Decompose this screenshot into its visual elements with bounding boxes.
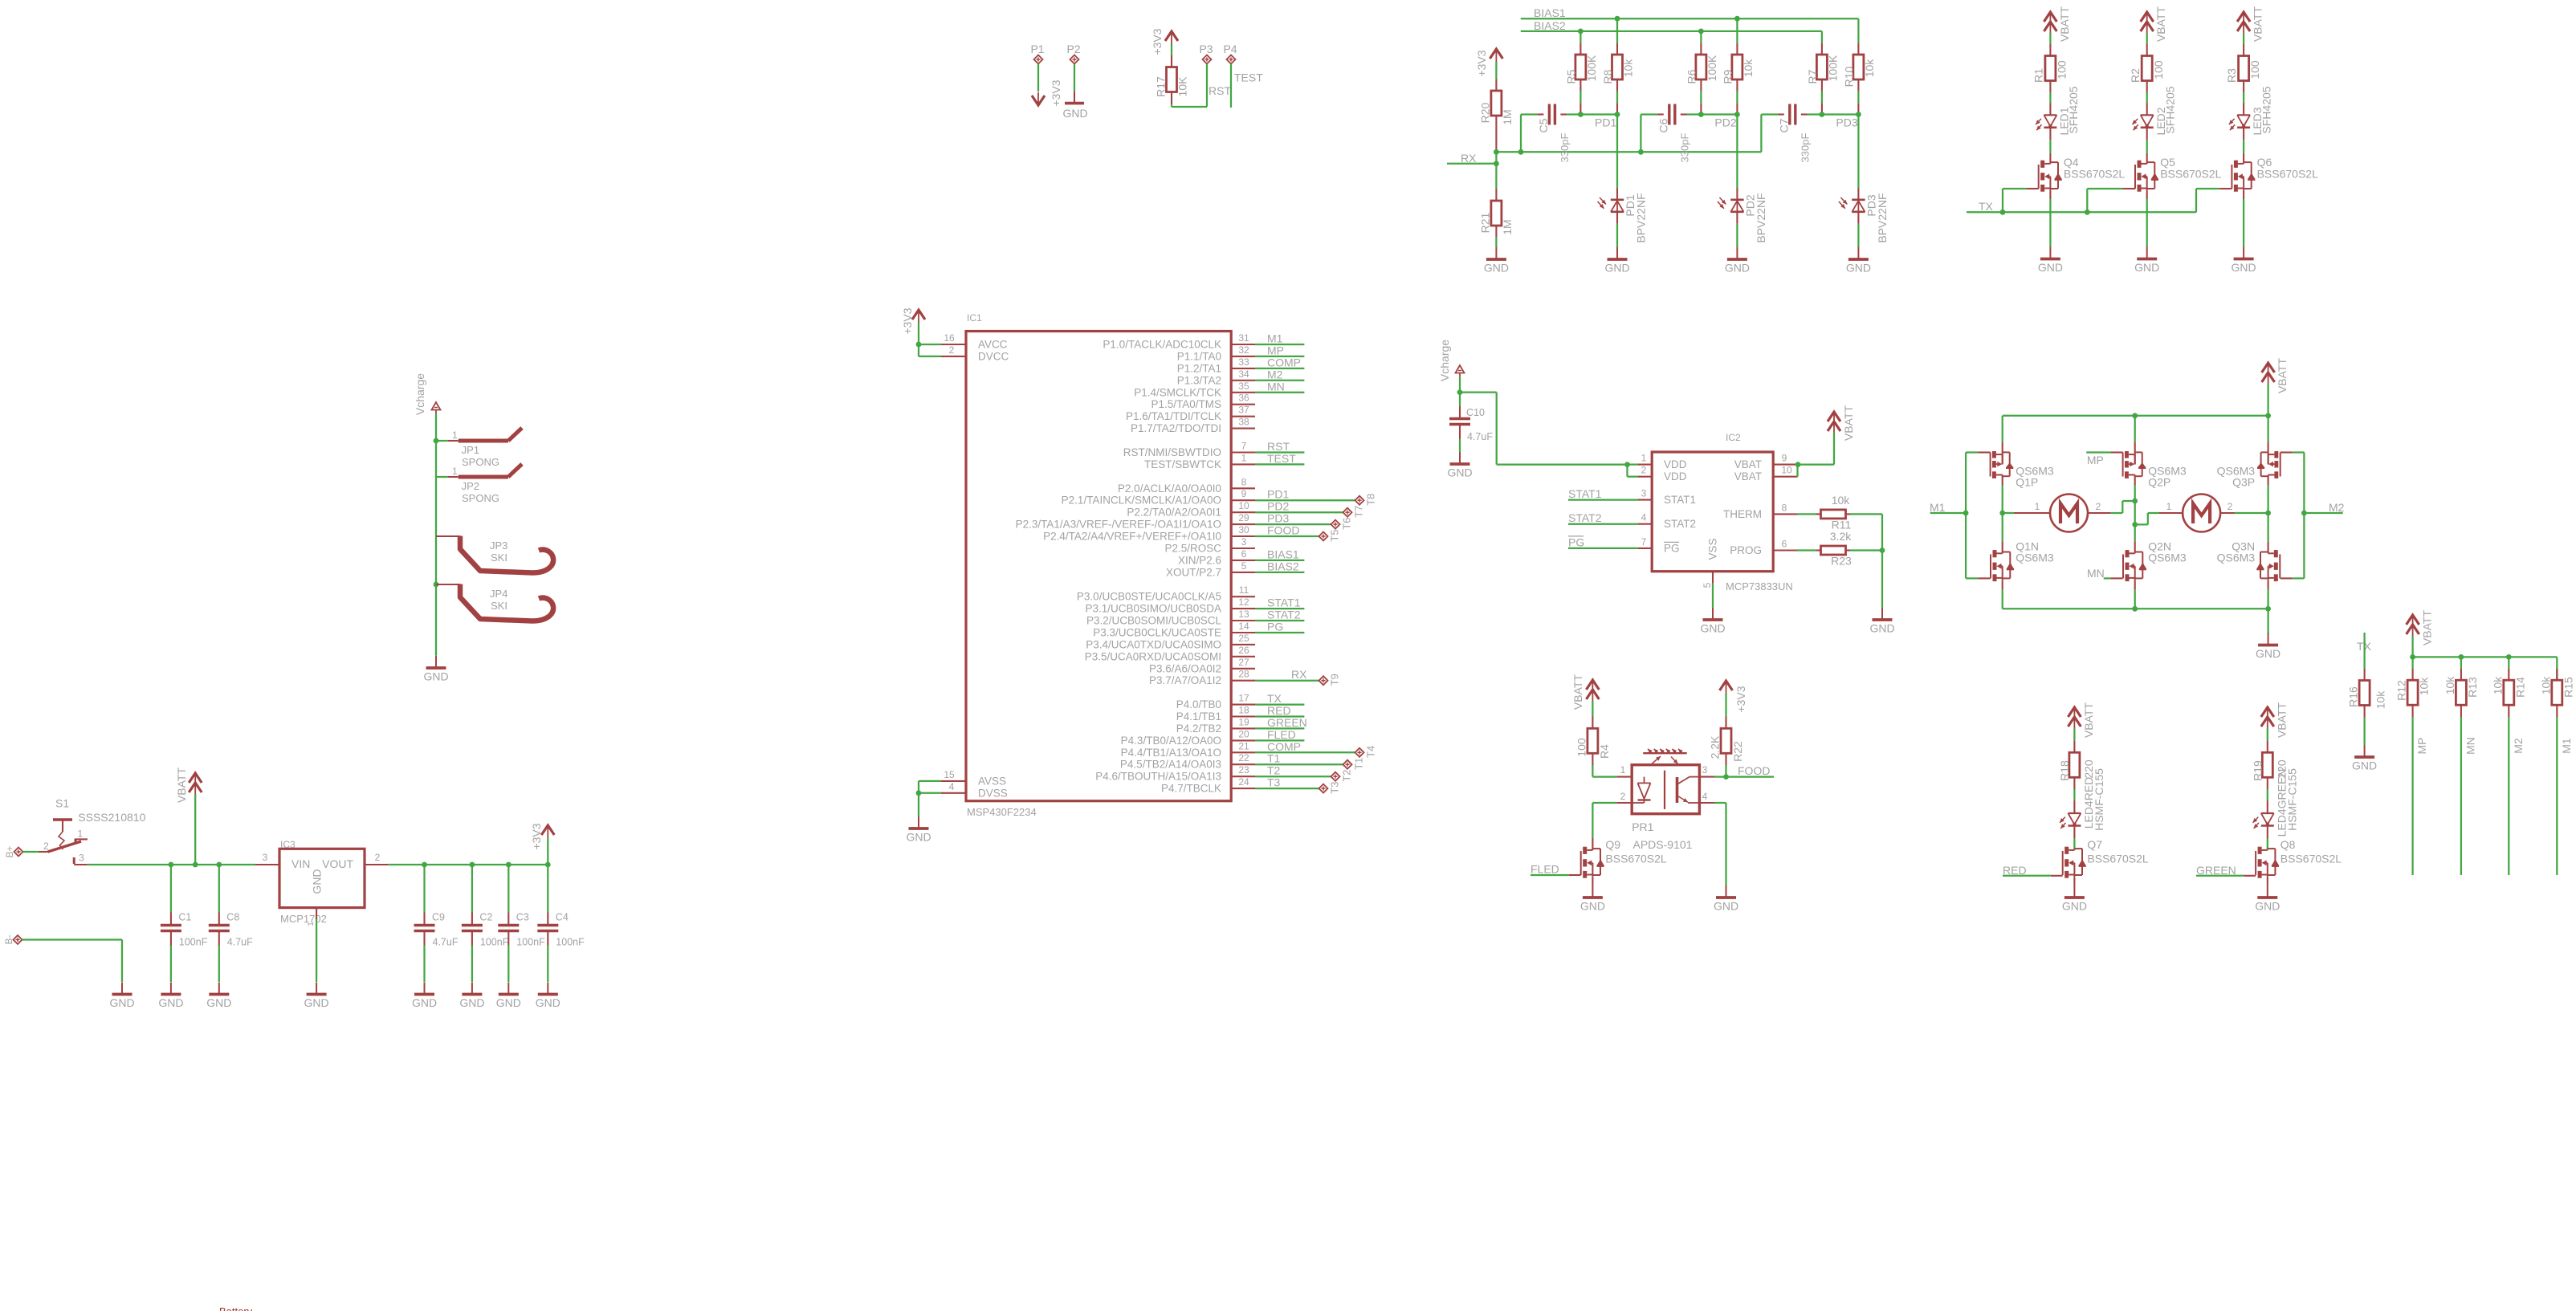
svg-text:1M: 1M	[1501, 109, 1514, 124]
svg-text:MP: MP	[2415, 738, 2428, 755]
svg-text:3: 3	[263, 852, 268, 863]
svg-text:DVSS: DVSS	[978, 787, 1008, 799]
svg-text:GND: GND	[2256, 647, 2280, 660]
svg-text:4.7uF: 4.7uF	[227, 937, 253, 948]
svg-text:22: 22	[1238, 752, 1249, 763]
svg-text:B-: B-	[3, 934, 14, 944]
svg-text:P1: P1	[1030, 43, 1044, 55]
svg-text:100nF: 100nF	[480, 937, 509, 948]
svg-text:PROG: PROG	[1730, 544, 1762, 556]
svg-text:M1: M1	[2560, 738, 2573, 754]
svg-text:1: 1	[452, 430, 458, 441]
svg-text:TEST: TEST	[1267, 452, 1296, 465]
svg-text:Battery: Battery	[219, 1305, 253, 1311]
svg-text:C4: C4	[556, 912, 569, 923]
svg-text:4.7uF: 4.7uF	[433, 937, 459, 948]
svg-text:3: 3	[1702, 764, 1708, 776]
svg-text:100: 100	[2056, 60, 2069, 79]
svg-text:VBAT: VBAT	[1734, 458, 1762, 470]
svg-text:PD3: PD3	[1836, 116, 1857, 129]
svg-text:TX: TX	[1979, 200, 1994, 213]
svg-text:GND: GND	[496, 996, 521, 1009]
svg-text:R13: R13	[2466, 677, 2479, 698]
svg-text:Vcharge: Vcharge	[414, 373, 426, 415]
svg-text:31: 31	[1238, 332, 1249, 344]
svg-text:STAT1: STAT1	[1568, 487, 1602, 500]
svg-text:P3: P3	[1199, 43, 1213, 55]
svg-text:APDS-9101: APDS-9101	[1633, 838, 1693, 851]
svg-text:27: 27	[1238, 657, 1249, 668]
svg-text:HSMF-C155: HSMF-C155	[2093, 768, 2105, 831]
svg-text:+3V3: +3V3	[1050, 79, 1062, 106]
svg-text:330pF: 330pF	[1678, 133, 1690, 163]
svg-text:GREEN: GREEN	[1267, 716, 1307, 729]
svg-text:9: 9	[1241, 488, 1247, 499]
svg-text:M2: M2	[2512, 738, 2525, 754]
svg-text:VOUT: VOUT	[322, 857, 353, 870]
svg-text:3: 3	[1241, 536, 1247, 548]
svg-text:R15: R15	[2562, 677, 2574, 698]
svg-text:P1.1/TA0: P1.1/TA0	[1177, 350, 1221, 362]
svg-text:32: 32	[1238, 344, 1249, 356]
svg-text:33: 33	[1238, 356, 1249, 368]
svg-text:MN: MN	[1267, 380, 1285, 393]
svg-text:SSSS210810: SSSS210810	[78, 811, 145, 824]
svg-text:T1: T1	[1267, 752, 1281, 765]
svg-text:PD1: PD1	[1595, 116, 1616, 129]
svg-text:B+: B+	[4, 845, 15, 857]
svg-text:P3.2/UCB0SOMI/UCB0SCL: P3.2/UCB0SOMI/UCB0SCL	[1086, 615, 1222, 627]
svg-text:RX: RX	[1461, 152, 1477, 165]
svg-text:VBATT: VBATT	[2058, 6, 2071, 43]
svg-text:2.2K: 2.2K	[1709, 735, 1722, 759]
svg-text:Q2P: Q2P	[2148, 476, 2170, 489]
svg-text:4: 4	[949, 781, 955, 792]
svg-text:13: 13	[1238, 609, 1249, 620]
svg-text:3.2k: 3.2k	[1830, 530, 1852, 543]
svg-text:R23: R23	[1831, 555, 1852, 568]
svg-text:SFH4205: SFH4205	[2260, 86, 2273, 133]
svg-text:P3.0/UCB0STE/UCA0CLK/A5: P3.0/UCB0STE/UCA0CLK/A5	[1077, 591, 1221, 603]
svg-text:37: 37	[1238, 405, 1249, 416]
svg-text:P2: P2	[1066, 43, 1080, 55]
svg-text:1M: 1M	[1501, 219, 1514, 234]
svg-text:10k: 10k	[1622, 59, 1635, 78]
svg-text:100: 100	[2152, 60, 2165, 79]
svg-text:M2: M2	[2329, 501, 2345, 514]
svg-text:SPONG: SPONG	[462, 492, 499, 504]
svg-text:R1: R1	[2032, 68, 2045, 83]
svg-text:T2: T2	[1341, 770, 1353, 782]
svg-text:2: 2	[2228, 501, 2233, 512]
svg-text:12: 12	[1238, 596, 1249, 608]
svg-text:TEST/SBWTCK: TEST/SBWTCK	[1144, 458, 1221, 470]
svg-text:AVCC: AVCC	[978, 339, 1008, 351]
svg-text:Vcharge: Vcharge	[1438, 340, 1451, 381]
svg-text:P4.0/TB0: P4.0/TB0	[1176, 698, 1221, 710]
svg-text:VSS: VSS	[1707, 538, 1719, 560]
svg-text:VIN: VIN	[291, 857, 310, 870]
svg-text:STAT2: STAT2	[1664, 518, 1696, 530]
svg-text:P4.7/TBCLK: P4.7/TBCLK	[1161, 783, 1221, 795]
svg-text:GND: GND	[1846, 262, 1871, 275]
svg-text:21: 21	[1238, 740, 1249, 751]
svg-text:Q1P: Q1P	[2016, 476, 2038, 489]
svg-text:2: 2	[949, 344, 955, 356]
svg-text:GND: GND	[2134, 261, 2159, 274]
svg-text:10K: 10K	[1176, 76, 1189, 97]
svg-text:7: 7	[1641, 536, 1647, 548]
svg-text:VDD: VDD	[1664, 470, 1687, 482]
svg-text:MSP430F2234: MSP430F2234	[967, 806, 1037, 818]
svg-text:4: 4	[1702, 791, 1708, 802]
svg-text:GND: GND	[2232, 261, 2256, 274]
svg-text:R20: R20	[1479, 102, 1492, 123]
svg-text:1: 1	[1241, 452, 1247, 463]
svg-text:R3: R3	[2225, 68, 2238, 83]
svg-text:BSS670S2L: BSS670S2L	[2280, 853, 2342, 865]
svg-text:BSS670S2L: BSS670S2L	[1605, 853, 1666, 865]
svg-text:5: 5	[1241, 560, 1247, 572]
svg-text:RED: RED	[1267, 704, 1291, 717]
svg-text:P2.5/ROSC: P2.5/ROSC	[1164, 543, 1221, 555]
svg-text:C3: C3	[516, 912, 529, 923]
svg-text:9: 9	[1782, 453, 1787, 464]
svg-text:R9: R9	[1721, 69, 1734, 83]
svg-text:1: 1	[2166, 501, 2172, 512]
svg-text:GND: GND	[459, 996, 484, 1009]
svg-text:330pF: 330pF	[1559, 133, 1571, 163]
svg-text:C1: C1	[178, 912, 191, 923]
svg-text:5: 5	[1702, 582, 1713, 588]
svg-text:4.7uF: 4.7uF	[1467, 431, 1493, 442]
svg-text:QS6M3: QS6M3	[2217, 552, 2256, 564]
svg-text:PG: PG	[1267, 621, 1283, 633]
svg-text:P3.3/UCB0CLK/UCA0STE: P3.3/UCB0CLK/UCA0STE	[1093, 627, 1221, 639]
svg-text:6: 6	[1782, 539, 1787, 550]
svg-text:C8: C8	[226, 912, 239, 923]
svg-text:P4: P4	[1223, 43, 1237, 55]
svg-text:R8: R8	[1601, 69, 1614, 83]
svg-text:QS6M3: QS6M3	[2148, 552, 2187, 564]
svg-text:+3V3: +3V3	[530, 823, 543, 849]
svg-text:AVSS: AVSS	[978, 775, 1006, 787]
svg-text:330pF: 330pF	[1799, 133, 1811, 163]
svg-text:Q7: Q7	[2087, 838, 2102, 851]
svg-text:R5: R5	[1564, 69, 1577, 83]
svg-text:6: 6	[1241, 548, 1247, 560]
svg-text:MN: MN	[2464, 737, 2476, 755]
svg-text:R2: R2	[2129, 68, 2142, 83]
svg-text:PD1: PD1	[1267, 488, 1289, 501]
svg-text:T5: T5	[1329, 529, 1341, 541]
svg-text:MP: MP	[2087, 454, 2104, 466]
svg-text:28: 28	[1238, 669, 1249, 680]
svg-text:24: 24	[1238, 776, 1249, 788]
svg-text:P4.4/TB1/A13/OA1O: P4.4/TB1/A13/OA1O	[1121, 747, 1221, 759]
svg-text:IC2: IC2	[1726, 432, 1741, 443]
svg-text:TEST: TEST	[1234, 71, 1263, 84]
svg-text:100nF: 100nF	[556, 937, 585, 948]
svg-text:R19: R19	[2251, 760, 2264, 781]
svg-text:VBATT: VBATT	[2276, 358, 2289, 394]
svg-text:PD3: PD3	[1267, 512, 1289, 525]
svg-text:R21: R21	[1479, 212, 1492, 233]
svg-text:SPONG: SPONG	[462, 456, 499, 468]
svg-text:M1: M1	[1930, 501, 1946, 514]
svg-text:STAT2: STAT2	[1568, 511, 1602, 524]
svg-text:GND: GND	[1725, 262, 1750, 275]
svg-text:VBAT: VBAT	[1734, 470, 1762, 482]
svg-text:P3.7/A7/OA1I2: P3.7/A7/OA1I2	[1149, 674, 1221, 686]
svg-text:XIN/P2.6: XIN/P2.6	[1178, 554, 1221, 566]
svg-text:VBATT: VBATT	[2421, 610, 2434, 646]
svg-text:3: 3	[1641, 488, 1647, 499]
svg-text:T1: T1	[1353, 758, 1365, 770]
svg-text:VBATT: VBATT	[1842, 405, 1855, 442]
svg-text:P2.0/ACLK/A0/OA0I0: P2.0/ACLK/A0/OA0I0	[1118, 482, 1221, 495]
svg-text:P2.4/TA2/A4/VREF+/VEREF+/OA1I0: P2.4/TA2/A4/VREF+/VEREF+/OA1I0	[1043, 531, 1221, 543]
svg-text:C10: C10	[1466, 407, 1485, 418]
svg-text:VBATT: VBATT	[2154, 6, 2167, 43]
svg-text:38: 38	[1238, 417, 1249, 428]
svg-text:GND: GND	[158, 996, 183, 1009]
svg-text:BSS670S2L: BSS670S2L	[2064, 168, 2125, 181]
svg-text:SKI: SKI	[491, 600, 507, 612]
svg-text:GND: GND	[2038, 261, 2063, 274]
svg-text:P4.3/TB0/A12/OA0O: P4.3/TB0/A12/OA0O	[1121, 735, 1221, 747]
svg-text:RST: RST	[1209, 84, 1231, 97]
svg-text:+3V3: +3V3	[1734, 686, 1747, 712]
svg-text:FLED: FLED	[1267, 728, 1296, 741]
svg-text:STAT1: STAT1	[1664, 494, 1696, 506]
svg-text:P2.1/TAINCLK/SMCLK/A1/OA0O: P2.1/TAINCLK/SMCLK/A1/OA0O	[1062, 495, 1221, 507]
svg-text:10k: 10k	[2491, 676, 2504, 695]
svg-text:17: 17	[1238, 693, 1249, 704]
svg-text:TX: TX	[1267, 692, 1282, 705]
svg-text:C2: C2	[479, 912, 492, 923]
svg-text:GND: GND	[423, 670, 448, 683]
svg-text:GND: GND	[1700, 622, 1725, 635]
svg-text:FOOD: FOOD	[1738, 764, 1770, 777]
svg-text:P3.1/UCB0SIMO/UCB0SDA: P3.1/UCB0SIMO/UCB0SDA	[1085, 603, 1221, 615]
svg-text:BSS670S2L: BSS670S2L	[2257, 168, 2318, 181]
svg-text:14: 14	[1238, 621, 1249, 632]
svg-text:26: 26	[1238, 645, 1249, 656]
svg-text:10k: 10k	[1742, 59, 1755, 78]
svg-text:RX: RX	[1291, 668, 1307, 681]
svg-text:GND: GND	[1869, 622, 1894, 635]
svg-text:100: 100	[2248, 60, 2261, 79]
svg-text:COMP: COMP	[1267, 740, 1301, 753]
svg-text:COMP: COMP	[1267, 356, 1301, 368]
svg-text:19: 19	[1238, 716, 1249, 727]
svg-text:100K: 100K	[1585, 55, 1598, 81]
svg-text:GND: GND	[1447, 466, 1472, 479]
svg-text:30: 30	[1238, 524, 1249, 535]
svg-text:8: 8	[1241, 476, 1247, 487]
svg-text:100K: 100K	[1706, 55, 1718, 81]
svg-text:P3.5/UCA0RXD/UCA0SOMI: P3.5/UCA0RXD/UCA0SOMI	[1085, 650, 1221, 662]
svg-text:8: 8	[1782, 502, 1787, 513]
svg-text:RED: RED	[2003, 864, 2027, 877]
svg-text:P4.5/TB2/A14/OA0I3: P4.5/TB2/A14/OA0I3	[1120, 759, 1221, 771]
svg-text:RST: RST	[1267, 440, 1290, 453]
svg-text:T7: T7	[1353, 506, 1365, 518]
svg-text:THERM: THERM	[1723, 508, 1762, 520]
svg-text:MN: MN	[2087, 567, 2105, 580]
svg-text:GND: GND	[906, 831, 931, 844]
svg-text:M1: M1	[1267, 332, 1283, 345]
svg-text:STAT2: STAT2	[1267, 609, 1301, 621]
svg-text:SFH4205: SFH4205	[2163, 86, 2176, 133]
svg-text:GND: GND	[1062, 107, 1087, 120]
svg-text:PG: PG	[1664, 542, 1680, 554]
svg-text:S1: S1	[55, 797, 69, 810]
svg-text:T2: T2	[1267, 764, 1281, 777]
svg-text:R6: R6	[1685, 69, 1698, 83]
svg-text:20: 20	[1238, 728, 1249, 739]
svg-text:IC1: IC1	[967, 312, 982, 324]
svg-text:Q9: Q9	[1605, 838, 1620, 851]
svg-text:GND: GND	[109, 996, 134, 1009]
svg-text:MCP73833UN: MCP73833UN	[1726, 580, 1793, 592]
svg-text:P1.4/SMCLK/TCK: P1.4/SMCLK/TCK	[1134, 386, 1221, 398]
svg-text:Q8: Q8	[2280, 838, 2296, 851]
svg-text:10k: 10k	[2444, 676, 2456, 695]
svg-text:1: 1	[1641, 453, 1647, 464]
svg-text:100: 100	[1575, 738, 1588, 757]
svg-text:VBATT: VBATT	[2082, 702, 2095, 739]
svg-text:T3: T3	[1267, 776, 1281, 789]
svg-text:P1.5/TA0/TMS: P1.5/TA0/TMS	[1151, 398, 1221, 410]
svg-text:29: 29	[1238, 512, 1249, 523]
svg-text:15: 15	[944, 769, 955, 780]
svg-text:PG: PG	[1568, 535, 1584, 548]
svg-text:P2.3/TA1/A3/VREF-/VEREF-/OA1I1: P2.3/TA1/A3/VREF-/VEREF-/OA1I1/OA1O	[1016, 519, 1221, 531]
svg-text:3: 3	[79, 853, 84, 864]
svg-text:10k: 10k	[1832, 494, 1851, 507]
svg-text:MCP1702: MCP1702	[280, 913, 327, 925]
svg-text:BSS670S2L: BSS670S2L	[2087, 853, 2148, 865]
svg-text:P1.7/TA2/TDO/TDI: P1.7/TA2/TDO/TDI	[1131, 422, 1221, 434]
svg-text:FOOD: FOOD	[1267, 524, 1299, 537]
svg-text:100nF: 100nF	[179, 937, 208, 948]
svg-text:R22: R22	[1731, 741, 1744, 762]
svg-text:GND: GND	[2062, 900, 2087, 913]
svg-text:R12: R12	[2395, 680, 2408, 701]
svg-text:R7: R7	[1806, 69, 1819, 83]
svg-text:C9: C9	[432, 912, 445, 923]
svg-text:BSS670S2L: BSS670S2L	[2160, 168, 2221, 181]
svg-text:GND: GND	[1580, 900, 1605, 913]
svg-text:R4: R4	[1598, 744, 1611, 759]
svg-text:P4.1/TB1: P4.1/TB1	[1176, 710, 1221, 723]
svg-text:10: 10	[1238, 500, 1249, 511]
svg-text:GND: GND	[1714, 900, 1738, 913]
svg-text:36: 36	[1238, 393, 1249, 404]
svg-text:+3V3: +3V3	[1151, 28, 1164, 55]
svg-text:C5: C5	[1537, 118, 1550, 132]
svg-text:GND: GND	[1484, 262, 1509, 275]
svg-text:R17: R17	[1155, 76, 1168, 97]
svg-text:GND: GND	[304, 996, 329, 1009]
svg-text:R16: R16	[2347, 686, 2360, 707]
svg-text:T6: T6	[1341, 518, 1353, 530]
svg-text:1: 1	[1620, 764, 1626, 776]
svg-text:7: 7	[1241, 441, 1247, 452]
svg-text:25: 25	[1238, 633, 1249, 644]
svg-text:T3: T3	[1329, 782, 1341, 794]
svg-text:10k: 10k	[2418, 677, 2431, 696]
svg-text:16: 16	[944, 332, 955, 344]
svg-text:T4: T4	[1365, 746, 1377, 758]
svg-text:18: 18	[1238, 705, 1249, 716]
svg-text:2: 2	[1620, 791, 1626, 802]
svg-text:BPV22NF: BPV22NF	[1635, 193, 1648, 242]
svg-text:P3.4/UCA0TXD/UCA0SIMO: P3.4/UCA0TXD/UCA0SIMO	[1086, 638, 1221, 650]
svg-text:10k: 10k	[2539, 676, 2552, 695]
svg-text:PD2: PD2	[1714, 116, 1736, 129]
svg-text:10k: 10k	[2374, 690, 2387, 710]
svg-text:GND: GND	[536, 996, 560, 1009]
svg-text:JP4: JP4	[490, 588, 507, 600]
svg-text:11: 11	[1239, 584, 1249, 596]
svg-text:P1.6/TA1/TDI/TCLK: P1.6/TA1/TDI/TCLK	[1126, 410, 1221, 422]
svg-text:+3V3: +3V3	[1475, 50, 1488, 76]
svg-text:VDD: VDD	[1664, 458, 1687, 470]
svg-text:QS6M3: QS6M3	[2016, 552, 2054, 564]
svg-text:R10: R10	[1842, 66, 1855, 87]
svg-text:T8: T8	[1365, 494, 1377, 506]
svg-text:4: 4	[1641, 512, 1647, 523]
svg-text:1: 1	[307, 922, 316, 926]
svg-text:JP3: JP3	[490, 539, 507, 552]
svg-text:1: 1	[2035, 501, 2040, 512]
svg-text:2: 2	[1641, 465, 1647, 476]
svg-text:HSMF-C155: HSMF-C155	[2285, 768, 2298, 831]
svg-text:VBATT: VBATT	[2252, 6, 2264, 43]
svg-text:35: 35	[1238, 381, 1249, 392]
svg-text:GREEN: GREEN	[2196, 864, 2236, 877]
svg-text:2: 2	[2096, 501, 2101, 512]
svg-text:10k: 10k	[1863, 59, 1876, 78]
svg-text:MP: MP	[1267, 344, 1284, 356]
svg-text:2: 2	[43, 841, 49, 852]
svg-text:SFH4205: SFH4205	[2067, 86, 2080, 133]
svg-text:+3V3: +3V3	[901, 307, 914, 334]
svg-text:STAT1: STAT1	[1267, 596, 1301, 609]
svg-text:100nF: 100nF	[516, 937, 545, 948]
svg-text:BIAS1: BIAS1	[1534, 6, 1566, 19]
svg-text:RST/NMI/SBWTDIO: RST/NMI/SBWTDIO	[1123, 446, 1221, 458]
svg-text:BPV22NF: BPV22NF	[1755, 193, 1767, 242]
svg-text:P3.6/A6/OA0I2: P3.6/A6/OA0I2	[1149, 662, 1221, 674]
svg-text:Q3P: Q3P	[2232, 476, 2255, 489]
svg-text:VBATT: VBATT	[175, 767, 188, 804]
svg-text:1: 1	[452, 466, 458, 477]
svg-text:BPV22NF: BPV22NF	[1876, 193, 1889, 242]
svg-text:GND: GND	[1604, 262, 1629, 275]
svg-text:PR1: PR1	[1632, 820, 1653, 833]
svg-text:1: 1	[78, 828, 84, 839]
svg-text:P1.3/TA2: P1.3/TA2	[1177, 374, 1221, 386]
svg-text:P1.2/TA1: P1.2/TA1	[1177, 362, 1221, 374]
svg-text:GND: GND	[2352, 759, 2377, 772]
svg-text:VBATT: VBATT	[2275, 702, 2288, 739]
svg-text:GND: GND	[2255, 900, 2280, 913]
svg-text:FLED: FLED	[1531, 863, 1559, 876]
